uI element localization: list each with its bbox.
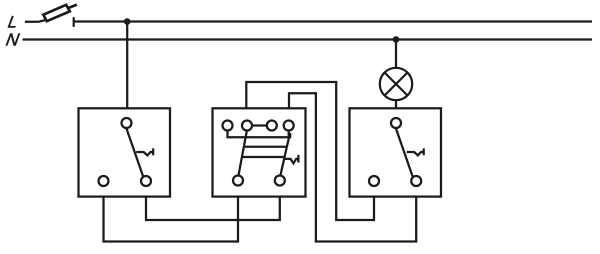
wire L bus (74, 20, 592, 22)
node N junction (393, 36, 400, 43)
S2 terminal top (391, 118, 401, 128)
S3 actuator (284, 155, 298, 164)
S2 terminal bottom-right (411, 176, 421, 186)
lamp E1 (380, 68, 412, 100)
S3 terminal 4 (284, 121, 294, 131)
S1 terminal bottom-right (141, 176, 151, 186)
S2 lever (396, 128, 413, 177)
switch S2 box (350, 108, 442, 196)
wire lamp to S2 (395, 100, 397, 108)
node L junction (124, 18, 131, 25)
wire N drop to lamp E1 (395, 40, 397, 69)
S3 rung lower (242, 156, 285, 158)
S3 stub terminal 1 cross-link (228, 131, 291, 138)
wire S3 terminal 2 to S2 bottom-left (246, 82, 374, 220)
S1 terminal top (122, 118, 132, 128)
S3 rung upper (244, 146, 287, 148)
wire S3 terminal 4 to S2 bottom-right (289, 93, 416, 241)
switch S1 box (79, 108, 171, 196)
S1 actuator (136, 148, 153, 155)
svg-text:N: N (5, 30, 21, 50)
S3 terminal bottom-right (275, 176, 285, 186)
S3 stub terminal 4 (288, 131, 290, 138)
wire S1 bottom-right to S3 bottom-right (146, 197, 280, 220)
wire N bus (23, 38, 593, 40)
S3 terminal 3 (267, 121, 277, 131)
S3 terminal 2 (242, 121, 252, 131)
svg-text:L: L (7, 13, 20, 32)
S1 terminal bottom-left (99, 176, 109, 186)
S3 terminal 1 (223, 121, 233, 131)
fuse fixed contact (73, 17, 75, 27)
S2 actuator (407, 148, 424, 155)
S3 left contact bar (238, 130, 247, 175)
fuse F1 (43, 5, 77, 22)
S1 lever (126, 128, 143, 177)
wire L drop to S1 (126, 22, 128, 109)
wire L feed (25, 20, 46, 22)
wire S1 bottom-left to S3 bottom-left (104, 197, 239, 242)
S3 right contact bar (280, 136, 289, 176)
S3 link terminal 2-3 (252, 124, 267, 126)
S3 terminal bottom-left (233, 176, 243, 186)
S2 terminal bottom-left (369, 176, 379, 186)
switch S3 box (intermediate) (213, 108, 306, 196)
